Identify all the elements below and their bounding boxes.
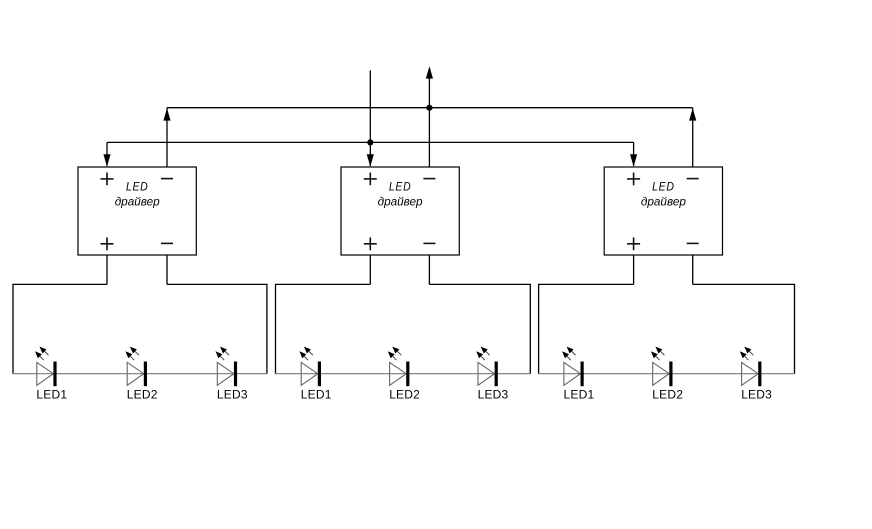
arrowhead: up toward bus on U1 − riser <box>163 108 170 120</box>
LED1 of string 3: cathode bar <box>581 362 584 387</box>
LED1 of string 2: reference label <box>301 388 332 402</box>
U3 label "LED драйвер" <box>641 180 686 209</box>
svg-text:драйвер: драйвер <box>641 195 686 209</box>
LED2 of string 3: reference label <box>652 388 683 402</box>
U3 pin mark: − (top-right input) <box>687 178 699 180</box>
svg-text:LED3: LED3 <box>741 388 772 402</box>
LED3 of string 3: reference label <box>741 388 772 402</box>
wire: supply feed drop (input line to middle driver +) <box>369 70 371 166</box>
arrowhead: into U1 + input <box>103 154 110 166</box>
wire: negative return bus (upper rail) <box>167 107 693 109</box>
LED1 of string 2: emission arrows <box>299 347 313 361</box>
U3 pin mark: − (bottom-right output) <box>687 242 699 244</box>
arrowhead: up toward bus on U3 − riser <box>689 108 696 120</box>
svg-text:LED3: LED3 <box>478 388 509 402</box>
LED3 of string 3: emission arrows <box>740 347 754 361</box>
arrowhead: into U3 + input <box>630 154 637 166</box>
LED3 of string 3: diode triangle <box>742 362 759 385</box>
wire: U1 − output down to string 1 <box>166 255 168 284</box>
LED2 of string 1: cathode bar <box>144 362 147 387</box>
wire: U3 + output down to string 3 <box>633 255 635 284</box>
wire: U2 − output down to string 2 <box>428 255 430 284</box>
U2 pin mark: − (bottom-right output) <box>423 242 435 244</box>
LED1 of string 1: cathode bar <box>53 362 56 387</box>
LED2 of string 2: cathode bar <box>406 362 409 387</box>
svg-text:LED2: LED2 <box>127 388 158 402</box>
LED2 of string 1: emission arrows <box>125 347 138 361</box>
U1 label "LED драйвер" <box>115 180 160 209</box>
svg-text:драйвер: драйвер <box>378 195 423 209</box>
junction: dot where middle riser joins upper bus <box>426 105 432 111</box>
U1 pin mark: − (bottom-right output) <box>161 242 173 244</box>
svg-text:LED1: LED1 <box>301 388 332 402</box>
U1 pin mark: + (top-left input) <box>101 173 114 186</box>
U2 label "LED драйвер" <box>378 180 423 209</box>
LED2 of string 1: reference label <box>127 388 158 402</box>
U2 pin mark: + (top-left input) <box>364 173 377 186</box>
wire: string 3 series LED row <box>539 373 795 375</box>
svg-text:LED1: LED1 <box>36 388 67 402</box>
LED3 of string 1: diode triangle <box>217 362 234 385</box>
LED3 of string 2: cathode bar <box>495 362 498 387</box>
wire: string 3 left loop segment <box>539 284 634 373</box>
wire: U2 + output down to string 2 <box>369 255 371 284</box>
U2 pin mark: + (bottom-left output) <box>364 237 377 250</box>
junction: dot where supply feed joins lower bus <box>367 139 373 145</box>
U1 pin mark: + (bottom-left output) <box>101 237 114 250</box>
LED3 of string 1: cathode bar <box>234 362 237 387</box>
svg-text:LED2: LED2 <box>652 388 683 402</box>
LED1 of string 2: diode triangle <box>301 362 318 385</box>
wire: positive supply bus (lower rail) <box>107 141 634 143</box>
LED1 of string 2: cathode bar <box>318 362 321 387</box>
wire: U3 + input stub from lower bus <box>633 142 635 166</box>
LED3 of string 1: reference label <box>217 388 248 402</box>
svg-text:LED2: LED2 <box>389 388 420 402</box>
LED driver U1 box <box>78 167 196 255</box>
LED1 of string 1: diode triangle <box>37 362 54 385</box>
wire: string 1 series LED row <box>13 373 267 375</box>
LED1 of string 1: reference label <box>36 388 67 402</box>
LED1 of string 3: diode triangle <box>564 362 581 385</box>
wire: string 2 series LED row <box>276 373 531 375</box>
LED2 of string 1: diode triangle <box>127 362 144 385</box>
svg-text:LED1: LED1 <box>564 388 595 402</box>
wire: string 2 left loop segment <box>276 284 371 373</box>
svg-text:LED: LED <box>652 180 675 194</box>
wire: U3 − output down to string 3 <box>692 255 694 284</box>
arrowhead: into U2 + input <box>367 154 374 166</box>
LED1 of string 3: emission arrows <box>562 347 576 361</box>
wire: string 2 right loop segment <box>429 284 530 373</box>
U3 pin mark: + (bottom-left output) <box>627 237 640 250</box>
LED2 of string 2: reference label <box>389 388 420 402</box>
arrowhead: output arrow pointing up at top of riser <box>426 66 433 78</box>
LED2 of string 3: cathode bar <box>669 362 672 387</box>
LED2 of string 2: emission arrows <box>388 347 402 361</box>
LED1 of string 1: emission arrows <box>35 347 49 361</box>
LED3 of string 2: reference label <box>478 388 509 402</box>
U3 pin mark: + (top-left input) <box>627 173 640 186</box>
wire: U1 + input stub from lower bus <box>106 142 108 166</box>
wire: string 3 right loop segment <box>693 284 795 373</box>
LED2 of string 3: emission arrows <box>651 347 665 361</box>
wire: middle driver negative riser to top <box>428 79 430 168</box>
svg-text:LED: LED <box>389 180 412 194</box>
wire: string 1 right loop segment <box>167 284 267 373</box>
LED3 of string 2: emission arrows <box>476 347 490 361</box>
LED1 of string 3: reference label <box>564 388 595 402</box>
svg-text:LED: LED <box>126 180 149 194</box>
wire: U1 − return riser to upper bus <box>166 108 168 167</box>
wire: U3 − return riser to upper bus <box>692 108 694 167</box>
LED3 of string 1: emission arrows <box>216 347 230 361</box>
LED3 of string 3: cathode bar <box>758 362 761 387</box>
LED2 of string 2: diode triangle <box>390 362 407 385</box>
LED driver U3 box <box>604 167 722 255</box>
U1 pin mark: − (top-right input) <box>161 178 173 180</box>
LED driver U2 box <box>341 167 459 255</box>
wire: string 1 left loop segment <box>13 284 107 373</box>
LED3 of string 2: diode triangle <box>478 362 495 385</box>
LED2 of string 3: diode triangle <box>653 362 670 385</box>
svg-text:драйвер: драйвер <box>115 195 160 209</box>
svg-text:LED3: LED3 <box>217 388 248 402</box>
U2 pin mark: − (top-right input) <box>423 178 435 180</box>
wire: U1 + output down to string 1 <box>106 255 108 284</box>
